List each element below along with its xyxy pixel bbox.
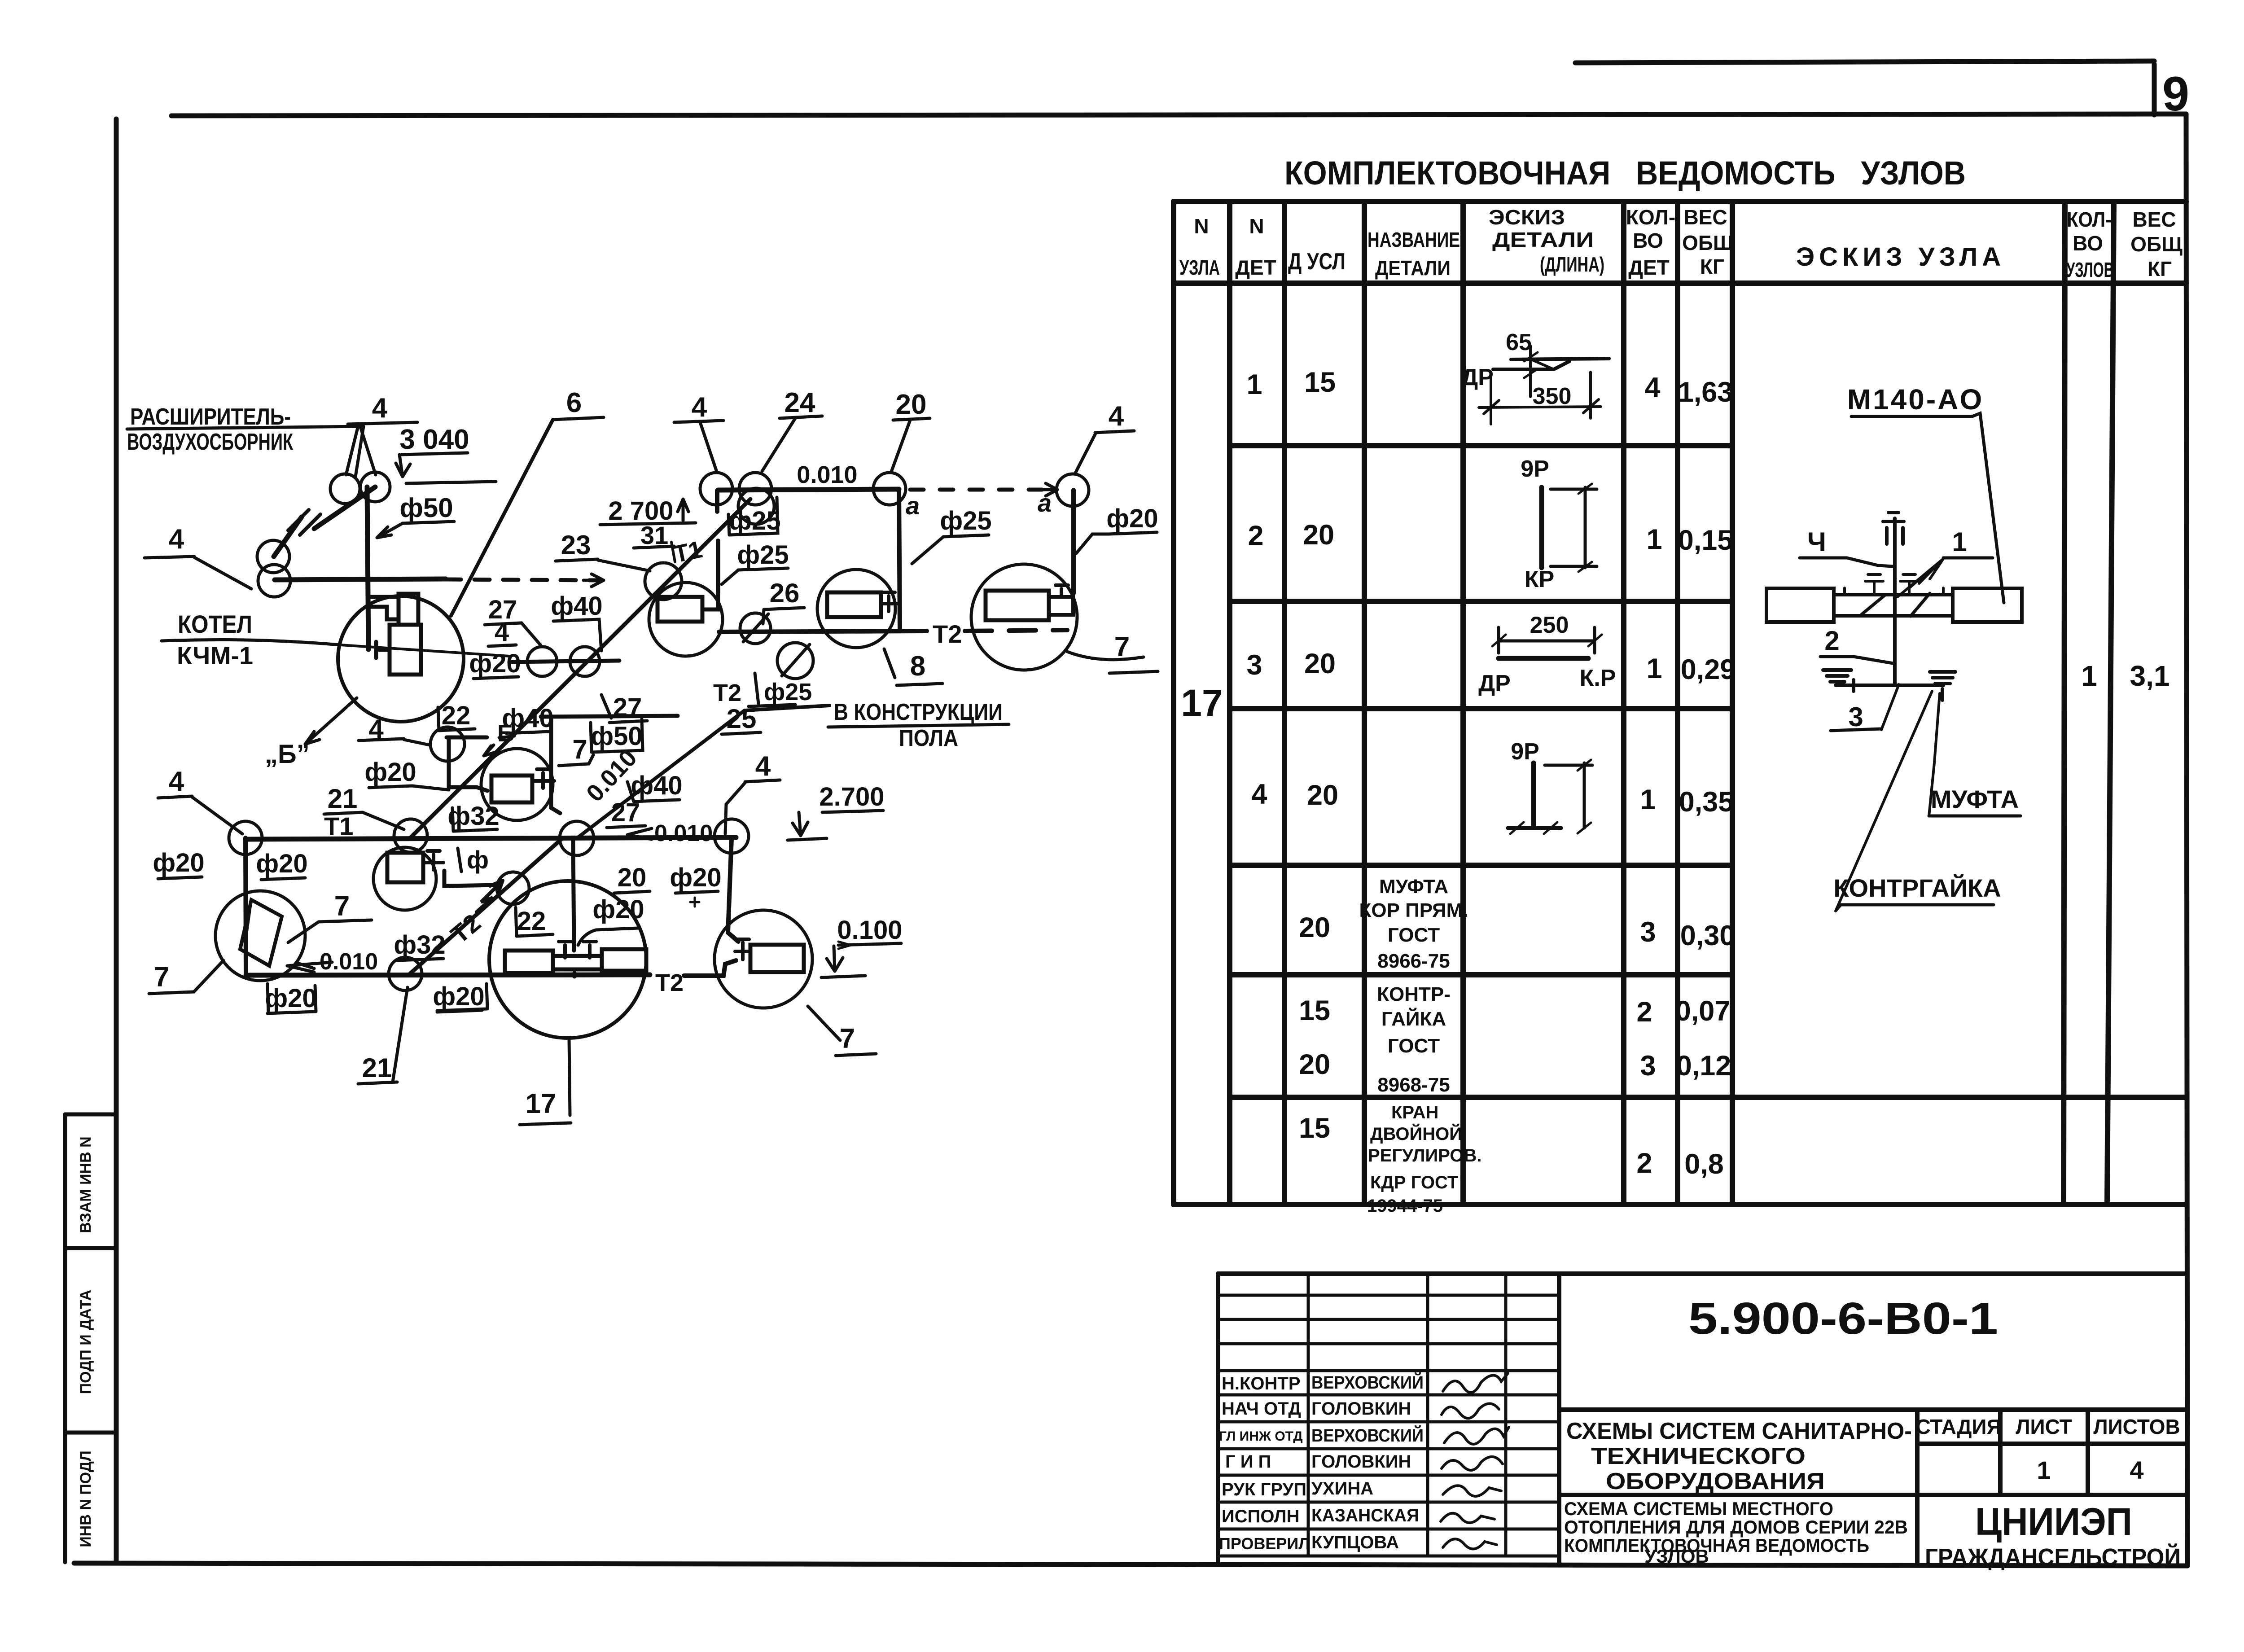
title block (1218, 1274, 2186, 1564)
callout 21 bottom (358, 987, 408, 1084)
floor note text (828, 699, 1009, 751)
svg-text:4: 4 (2130, 1456, 2143, 1484)
svg-text:5.900-6-В0-1: 5.900-6-В0-1 (1688, 1293, 1998, 1344)
elevation 3.040 (396, 424, 496, 483)
svg-text:15: 15 (1299, 1113, 1330, 1144)
svg-text:КОР ПРЯМ.: КОР ПРЯМ. (1359, 899, 1468, 921)
pipe label ф32 upper (447, 802, 499, 831)
air vent riser (1883, 513, 1904, 685)
svg-text:3: 3 (1640, 1050, 1656, 1082)
svg-text:2: 2 (1248, 520, 1263, 552)
svg-text:19944-75: 19944-75 (1367, 1196, 1443, 1216)
svg-text:МУФТА: МУФТА (1931, 785, 2019, 813)
svg-text:ВО: ВО (2073, 232, 2103, 255)
callout 22 kettle (438, 701, 475, 731)
svg-text:4: 4 (1251, 779, 1267, 810)
callout 20 (891, 389, 930, 472)
svg-text:МУФТА: МУФТА (1379, 876, 1448, 898)
kettle outlet branch circles (509, 647, 619, 676)
svg-text:9Р: 9Р (1511, 739, 1539, 765)
callout 27 mid (601, 693, 647, 723)
svg-text:2: 2 (1824, 626, 1839, 656)
svg-text:Н.КОНТР: Н.КОНТР (1222, 1374, 1301, 1393)
callout 8 (884, 649, 942, 685)
pipe label ф25 boxed (728, 497, 781, 535)
svg-text:4: 4 (755, 751, 771, 782)
elevation 2.700 right (788, 782, 885, 840)
node circle third (738, 488, 774, 524)
svg-text:0,35: 0,35 (1679, 786, 1734, 818)
svg-text:1: 1 (1640, 784, 1656, 815)
signatures scribbles (1441, 1373, 1509, 1549)
T1 riser top label (671, 536, 705, 568)
table name texts (1359, 876, 1481, 1216)
pipe label ф25 mid (912, 506, 992, 564)
svg-text:0,12: 0,12 (1676, 1050, 1731, 1082)
svg-text:22: 22 (442, 701, 471, 730)
T1 radiator small (373, 847, 443, 910)
svg-text:ДЕТ: ДЕТ (1235, 256, 1276, 279)
svg-text:ф40: ф40 (551, 592, 602, 621)
svg-text:ИСПОЛН: ИСПОЛН (1222, 1507, 1299, 1526)
svg-text:20: 20 (1304, 648, 1336, 679)
ground symbol right (contrgayka) (1930, 672, 1955, 700)
svg-text:ДЕТАЛИ: ДЕТАЛИ (1492, 228, 1594, 251)
callout 22 boxed (516, 907, 553, 936)
table headers (1179, 206, 2183, 281)
svg-text:ф25: ф25 (764, 679, 812, 705)
svg-text:УХИНА: УХИНА (1311, 1479, 1373, 1499)
svg-text:0,29: 0,29 (1681, 654, 1736, 685)
svg-text:КОМПЛЕКТОВОЧНАЯ ВЕДОМОСТЬ: КОМПЛЕКТОВОЧНАЯ ВЕДОМОСТЬ УЗЛОВ (1284, 154, 1966, 192)
svg-text:ф: ф (467, 846, 489, 874)
detail sketch row1: bent pipe (утка) (1479, 346, 1609, 424)
long diagonal riser T1 (410, 499, 750, 838)
long diagonal riser T2 (410, 838, 562, 974)
callout 7 expansion left (149, 960, 224, 994)
svg-text:К.Р: К.Р (1580, 665, 1616, 691)
wire T2 to radiator (684, 960, 736, 976)
callout 7 radiator C (1067, 631, 1158, 673)
svg-text:24: 24 (785, 387, 815, 418)
pipe label ф32 bottom (394, 930, 445, 960)
svg-text:17: 17 (1181, 682, 1223, 724)
svg-text:1: 1 (1952, 527, 1967, 557)
svg-text:ф20: ф20 (670, 863, 721, 892)
callout 4 left T1 (158, 766, 242, 834)
svg-text:15: 15 (1299, 995, 1330, 1026)
svg-text:УЗЛА: УЗЛА (1179, 256, 1220, 279)
node circle top right (1056, 474, 1089, 506)
elevation 0.100 (821, 916, 903, 977)
svg-text:ф20: ф20 (433, 982, 484, 1011)
label Муфта (1929, 693, 2020, 816)
branch radiator 7 mid top (541, 716, 678, 813)
svg-text:Т2: Т2 (933, 620, 962, 648)
svg-text:КОЛ-: КОЛ- (2067, 208, 2112, 231)
svg-text:15: 15 (1304, 367, 1336, 398)
node circle slashed lower (777, 643, 813, 679)
svg-text:ПРОВЕРИЛ: ПРОВЕРИЛ (1219, 1534, 1310, 1553)
label Контргайка (1833, 691, 2001, 911)
radiator 7 bottom right (714, 910, 812, 1008)
futorka valve symbols (1865, 574, 1918, 593)
svg-text:ГОСТ: ГОСТ (1388, 924, 1440, 946)
Б mark mid (484, 720, 515, 756)
kettle lower branch circle (430, 727, 487, 791)
svg-text:7: 7 (334, 891, 350, 922)
pipe label ф20 boxed bottom (265, 984, 487, 1013)
riser down to radiator B (899, 490, 900, 630)
slope 0.010 on T1 (627, 820, 713, 846)
svg-text:ф25: ф25 (737, 540, 789, 570)
title block texts (1219, 1372, 1424, 1553)
svg-text:4: 4 (169, 766, 184, 797)
stage sheet header (1915, 1415, 2180, 1484)
Б callout at kettle (265, 698, 357, 769)
svg-text:ГОЛОВКИН: ГОЛОВКИН (1311, 1452, 1411, 1472)
svg-text:ОТОПЛЕНИЯ ДЛЯ ДОМОВ СЕРИИ 22В: ОТОПЛЕНИЯ ДЛЯ ДОМОВ СЕРИИ 22В (1564, 1516, 1908, 1538)
svg-text:1,63: 1,63 (1678, 377, 1733, 408)
svg-text:ф20: ф20 (153, 848, 204, 877)
callout 4 kettle (488, 618, 516, 647)
svg-text:N: N (1194, 215, 1209, 238)
svg-text:a: a (906, 491, 920, 520)
svg-text:3 040: 3 040 (399, 424, 469, 455)
svg-text:ф20: ф20 (1106, 504, 1158, 533)
detail sketch row3: horizontal pipe 250 (1492, 627, 1602, 658)
svg-text:20: 20 (618, 863, 647, 892)
svg-text:ТЕХНИЧЕСКОГО: ТЕХНИЧЕСКОГО (1591, 1443, 1806, 1469)
svg-text:0,30: 0,30 (1680, 920, 1736, 951)
svg-text:4: 4 (1109, 401, 1124, 432)
svg-text:ВОЗДУХОСБОРНИК: ВОЗДУХОСБОРНИК (127, 429, 293, 455)
callout 7 expansion right (288, 891, 372, 942)
svg-text:„Б”: „Б” (265, 740, 310, 769)
callout 20 (614, 863, 650, 893)
svg-text:КДР ГОСТ: КДР ГОСТ (1370, 1173, 1458, 1192)
slope 0.010 top (763, 461, 858, 491)
radiator 7 mid circle (481, 749, 554, 820)
pipe label ф40 mid (627, 771, 683, 802)
svg-text:КАЗАНСКАЯ: КАЗАНСКАЯ (1311, 1506, 1419, 1525)
svg-text:ф40: ф40 (631, 771, 682, 800)
svg-text:0,8: 0,8 (1684, 1148, 1724, 1180)
big node circle 17 (489, 881, 646, 1038)
callout 24 (762, 387, 822, 471)
riser into 17 (573, 838, 574, 951)
svg-text:М140-АО: М140-АО (1847, 383, 1984, 416)
svg-text:27: 27 (611, 798, 640, 827)
ф small label (458, 846, 489, 874)
svg-text:ГРАЖДАНСЕЛЬСТРОЙ: ГРАЖДАНСЕЛЬСТРОЙ (1925, 1543, 2181, 1571)
svg-text:НАЧ ОТД: НАЧ ОТД (1222, 1399, 1301, 1419)
svg-text:17: 17 (526, 1088, 557, 1119)
top supply pipe (718, 489, 899, 490)
svg-text:ВЕРХОВСКИЙ: ВЕРХОВСКИЙ (1311, 1425, 1424, 1446)
svg-text:ОБЩ: ОБЩ (2130, 232, 2183, 256)
pipe label ф50 boxed (591, 719, 643, 752)
svg-text:8: 8 (910, 651, 925, 682)
svg-text:a: a (1038, 489, 1052, 517)
svg-text:КУПЦОВА: КУПЦОВА (1311, 1533, 1399, 1552)
callout 26 (763, 578, 804, 624)
callout 4 top (674, 392, 723, 472)
horizontal pipe from tank legs (275, 579, 446, 580)
pipe label ф50 (377, 493, 454, 538)
svg-text:КОТЕЛ: КОТЕЛ (178, 610, 252, 638)
svg-text:УЗЛОВ: УЗЛОВ (2066, 258, 2114, 281)
svg-text:3,1: 3,1 (2130, 660, 2170, 692)
svg-text:0,15: 0,15 (1678, 525, 1733, 556)
svg-text:КЧМ-1: КЧМ-1 (177, 641, 253, 670)
svg-text:1: 1 (1246, 369, 1262, 400)
riser pipe tank to kettle (367, 487, 368, 649)
svg-text:ДР: ДР (1461, 364, 1494, 390)
dashed top pipe (910, 488, 1056, 492)
svg-text:КОНТР-: КОНТР- (1377, 983, 1451, 1005)
svg-text:4: 4 (495, 618, 509, 647)
ground symbol left (1823, 670, 1943, 691)
svg-text:ф20: ф20 (364, 758, 416, 787)
radiator M140 left section (1766, 588, 1834, 622)
T2 rotated label with arrow (445, 881, 503, 949)
main T2 bottom line (246, 975, 650, 975)
svg-text:Д УСЛ: Д УСЛ (1288, 249, 1346, 275)
svg-text:ф32: ф32 (394, 930, 445, 960)
kettle label (162, 610, 509, 670)
callout 4 right leg (725, 751, 780, 834)
node totals (2081, 660, 2169, 692)
svg-text:СХЕМА СИСТЕМЫ МЕСТНОГО: СХЕМА СИСТЕМЫ МЕСТНОГО (1564, 1498, 1833, 1519)
radiator M140 right section (1953, 588, 2022, 622)
svg-text:4: 4 (692, 392, 707, 423)
svg-text:4: 4 (372, 393, 388, 424)
pipe label ф20 right T1 (670, 863, 721, 907)
right leg of T1 (728, 838, 738, 942)
T2 ф25 labels (713, 673, 812, 706)
svg-text:ОБОРУДОВАНИЯ: ОБОРУДОВАНИЯ (1606, 1468, 1825, 1494)
svg-text:1: 1 (1646, 524, 1662, 555)
svg-text:N: N (1249, 215, 1264, 238)
svg-text:ОБЩ: ОБЩ (1682, 231, 1734, 254)
svg-text:ВЕС: ВЕС (2132, 208, 2176, 231)
table data numbers (1181, 367, 1736, 1180)
svg-text:ПОЛА: ПОЛА (899, 725, 958, 751)
main T1 line (245, 837, 736, 839)
svg-text:ВЕРХОВСКИЙ: ВЕРХОВСКИЙ (1311, 1372, 1424, 1393)
node circle T1 riser foot (645, 563, 682, 600)
svg-text:ЭСКИЗ УЗЛА: ЭСКИЗ УЗЛА (1796, 242, 2005, 272)
dashed T2 to radiator C (965, 630, 1067, 631)
svg-text:250: 250 (1530, 612, 1569, 638)
diagonal pipe to tank with break (274, 487, 375, 557)
svg-text:4: 4 (169, 524, 184, 555)
svg-text:ф32: ф32 (447, 802, 499, 831)
label 3 (1831, 684, 1899, 732)
svg-text:ф20: ф20 (256, 849, 307, 878)
svg-text:КОЛ-: КОЛ- (1626, 206, 1675, 229)
svg-text:9Р: 9Р (1521, 456, 1549, 482)
svg-text:8968-75: 8968-75 (1377, 1074, 1450, 1096)
svg-text:ДР: ДР (1478, 670, 1511, 697)
svg-text:ГАЙКА: ГАЙКА (1381, 1007, 1446, 1030)
svg-text:22: 22 (517, 907, 546, 936)
node circles on top pipe (700, 473, 732, 505)
svg-text:25: 25 (727, 704, 757, 734)
twin radiator in 17 (505, 942, 646, 977)
callout 27 kettle (485, 595, 541, 645)
svg-text:НАЗВАНИЕ: НАЗВАНИЕ (1367, 228, 1460, 251)
node circle pair at tank (330, 474, 360, 504)
svg-text:0.010: 0.010 (654, 820, 713, 846)
radiator C circle (971, 564, 1077, 670)
node circles left pair (257, 540, 289, 573)
svg-text:ф20: ф20 (592, 895, 644, 924)
svg-text:4: 4 (1644, 372, 1660, 403)
label M140-AO (1847, 383, 2004, 603)
detail sketch row2: vertical pipe 9P (1542, 484, 1597, 572)
svg-text:ВО: ВО (1633, 229, 1663, 252)
svg-text:65: 65 (1506, 329, 1532, 355)
callout 7 bottom right (808, 1006, 876, 1056)
svg-text:7: 7 (840, 1023, 855, 1054)
svg-text:Т2: Т2 (713, 679, 741, 706)
svg-text:ДЕТ: ДЕТ (1628, 256, 1670, 279)
callout 4 tank (346, 393, 417, 475)
node circle below 26 (740, 613, 771, 644)
svg-text:ф25: ф25 (940, 506, 991, 535)
return pipe T2 row (719, 631, 927, 632)
main table grid (1174, 202, 2186, 1205)
svg-text:0.100: 0.100 (837, 916, 902, 945)
left stamp boxes (65, 1032, 116, 1562)
svg-text:350: 350 (1533, 383, 1572, 409)
svg-text:20: 20 (1299, 1049, 1330, 1080)
callout 4 left (145, 524, 251, 589)
svg-text:21: 21 (328, 784, 358, 814)
svg-text:ГЛ ИНЖ ОТД: ГЛ ИНЖ ОТД (1219, 1429, 1303, 1444)
riser down right loop (1071, 490, 1076, 593)
svg-text:0.010: 0.010 (797, 461, 857, 488)
label expansion tank (127, 404, 364, 477)
svg-text:Ч: Ч (1807, 527, 1826, 557)
svg-text:8966-75: 8966-75 (1377, 950, 1450, 972)
svg-text:2: 2 (1636, 1148, 1652, 1179)
svg-text:21: 21 (362, 1053, 392, 1083)
svg-text:УЗЛОВ: УЗЛОВ (1644, 1546, 1709, 1567)
pipe label ф40 lower (502, 704, 553, 733)
svg-text:ИНВ N ПОДЛ: ИНВ N ПОДЛ (77, 1450, 94, 1547)
svg-text:КР: КР (1525, 566, 1554, 592)
svg-text:20: 20 (1303, 519, 1334, 551)
svg-text:ВЗАМ ИНВ N: ВЗАМ ИНВ N (77, 1136, 94, 1233)
svg-text:ЛИСТ: ЛИСТ (2016, 1415, 2072, 1438)
callout 7 mid (559, 734, 593, 766)
pipe label ф20 right (1076, 504, 1158, 553)
svg-text:КОМПЛЕКТОВОЧНАЯ ВЕДОМОСТЬ: КОМПЛЕКТОВОЧНАЯ ВЕДОМОСТЬ (1564, 1535, 1869, 1556)
svg-text:ПОДП И ДАТА: ПОДП И ДАТА (77, 1290, 94, 1394)
svg-text:3: 3 (1246, 649, 1262, 681)
svg-text:РУК ГРУП: РУК ГРУП (1222, 1480, 1306, 1499)
svg-text:В КОНСТРУКЦИИ: В КОНСТРУКЦИИ (834, 699, 1003, 725)
svg-text:20: 20 (1307, 780, 1338, 811)
svg-text:ЛИСТОВ: ЛИСТОВ (2093, 1415, 2180, 1438)
svg-text:20: 20 (1299, 912, 1330, 943)
pipe label ф20 bottom2 (433, 982, 484, 1012)
svg-text:Г И П: Г И П (1225, 1452, 1271, 1472)
pipe label ф20 pair left (153, 848, 307, 880)
callout 17 (520, 1039, 571, 1125)
svg-text:ДВОЙНОЙ: ДВОЙНОЙ (1370, 1123, 1462, 1144)
detail sketch row4: vertical pipe 9P (1508, 760, 1592, 834)
slope 0.010 bottom (287, 949, 378, 975)
arrow into right riser (1042, 483, 1057, 496)
label 4 (1800, 527, 1893, 566)
svg-text:2.700: 2.700 (819, 782, 884, 811)
svg-text:СТАДИЯ: СТАДИЯ (1915, 1415, 2001, 1438)
pipe label ф20 in 17 (578, 895, 644, 945)
radiator A circle (649, 583, 723, 656)
node circle on T2 (389, 957, 422, 990)
kettle circle (338, 596, 464, 722)
svg-text:7: 7 (154, 962, 169, 993)
svg-text:ф50: ф50 (591, 722, 642, 751)
svg-text:ф40: ф40 (502, 704, 553, 733)
callout 4 right (1075, 401, 1134, 473)
svg-text:9: 9 (2162, 66, 2189, 121)
node circles on T1 (229, 821, 262, 854)
svg-text:ВЕС: ВЕС (1683, 206, 1727, 229)
node circle lower branch (444, 871, 529, 904)
svg-text:КГ: КГ (1700, 255, 1724, 278)
svg-text:Т1: Т1 (324, 812, 353, 840)
svg-text:ф20: ф20 (265, 984, 316, 1013)
svg-text:КГ: КГ (2148, 257, 2172, 280)
riser stubs at top main (717, 491, 718, 592)
callout 23 (556, 530, 650, 571)
svg-text:1: 1 (2081, 660, 2097, 692)
pipe label ф40 (551, 592, 602, 651)
svg-text:3: 3 (1848, 702, 1863, 732)
svg-text:ГОЛОВКИН: ГОЛОВКИН (1311, 1399, 1411, 1419)
dashed pipe continuation (446, 579, 597, 580)
radiator B circle (817, 570, 899, 648)
label 1 with fan leaders (1898, 527, 1993, 597)
project name (1566, 1418, 1912, 1494)
svg-text:ЦНИИЭП: ЦНИИЭП (1975, 1500, 2132, 1543)
diagonal branch to floor note (577, 705, 829, 838)
svg-text:СХЕМЫ СИСТЕМ САНИТАРНО-: СХЕМЫ СИСТЕМ САНИТАРНО- (1566, 1418, 1912, 1444)
callout 27 on T1 (607, 798, 645, 828)
svg-text:0,07: 0,07 (1675, 995, 1731, 1027)
svg-text:2: 2 (1636, 996, 1652, 1028)
callout 25 (722, 704, 761, 734)
svg-text:ЭСКИЗ: ЭСКИЗ (1489, 206, 1565, 229)
svg-text:1: 1 (1646, 653, 1662, 684)
callout 6 (451, 387, 604, 616)
label 2 (1820, 626, 1893, 663)
svg-text:ДЕТАЛИ: ДЕТАЛИ (1375, 256, 1451, 280)
svg-text:26: 26 (770, 578, 800, 608)
svg-text:1: 1 (2037, 1456, 2051, 1484)
svg-text:РЕГУЛИРОВ.: РЕГУЛИРОВ. (1368, 1146, 1481, 1166)
svg-text:ГОСТ: ГОСТ (1388, 1035, 1440, 1057)
pipe label ф20 lower kettle (364, 758, 449, 790)
svg-text:3: 3 (1640, 916, 1656, 948)
kettle internals (368, 594, 421, 675)
svg-text:7: 7 (572, 734, 587, 764)
